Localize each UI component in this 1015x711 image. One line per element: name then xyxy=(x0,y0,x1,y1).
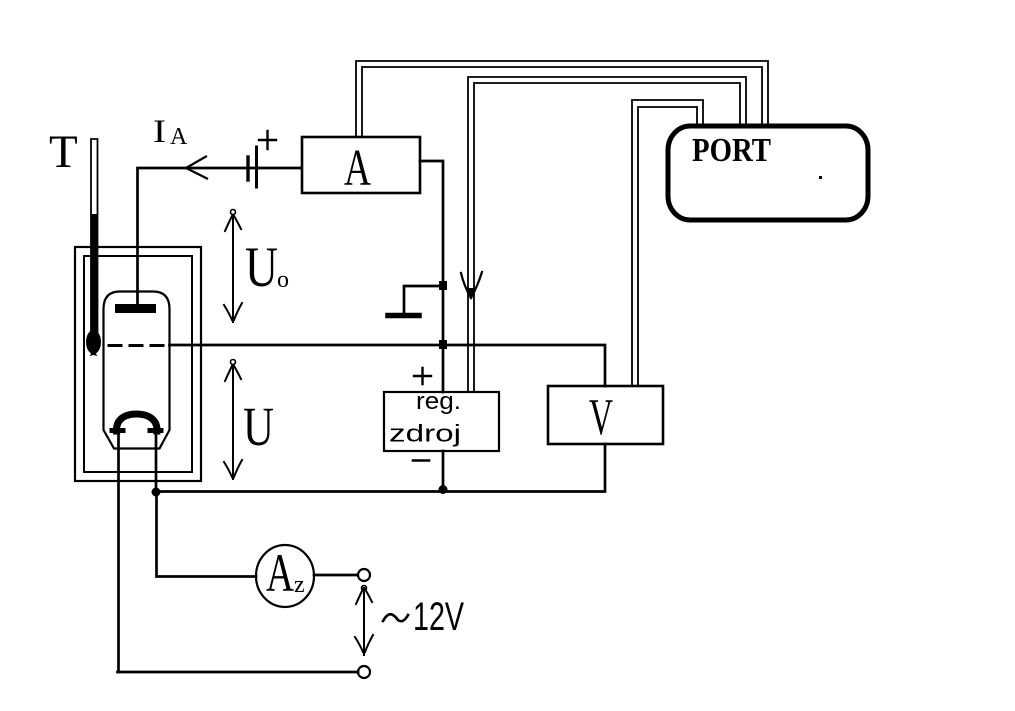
ammeter A2 circle xyxy=(256,545,314,607)
double wire A to PORT xyxy=(356,61,768,137)
top terminal circle xyxy=(358,569,370,581)
minus label reg zdroj xyxy=(413,459,429,462)
reg zdroj label xyxy=(389,388,461,448)
wire A2 to top terminal xyxy=(314,574,357,577)
bottom return wire xyxy=(118,671,359,674)
current arrow IA on wire xyxy=(186,157,207,179)
PORT box xyxy=(668,126,868,220)
arrow on PORT-reg wire xyxy=(461,272,482,298)
label Uo xyxy=(245,236,289,299)
filament right leg xyxy=(155,433,158,492)
voltmeter V box xyxy=(548,386,663,444)
svg-text:12V: 12V xyxy=(413,595,464,639)
junction dot at ground stub xyxy=(439,281,447,290)
scan speck in PORT xyxy=(819,176,822,179)
label IA xyxy=(153,114,188,150)
svg-text:T: T xyxy=(49,126,78,178)
svg-text:A: A xyxy=(170,124,188,150)
svg-text:PORT: PORT xyxy=(692,132,771,169)
ammeter A box xyxy=(302,137,420,193)
svg-text:A: A xyxy=(344,140,371,197)
A2 letters xyxy=(266,543,305,603)
tube envelope V1 xyxy=(104,292,170,449)
12V double arrow xyxy=(355,586,373,656)
svg-text:U: U xyxy=(243,396,274,457)
junction dot at bottom bus xyxy=(439,485,448,494)
plus label reg zdroj xyxy=(414,368,431,384)
label ~12V xyxy=(383,595,464,639)
Uo measurement arrow xyxy=(224,210,242,323)
ground symbol xyxy=(388,286,443,316)
filament left leg xyxy=(117,433,120,672)
main bus wire (cathode line) xyxy=(170,345,606,386)
dashed line in tube xyxy=(109,344,169,347)
svg-text:zdroj: zdroj xyxy=(389,421,461,448)
anode plate xyxy=(115,304,156,313)
oven enclosure outer xyxy=(75,247,201,481)
wire A box right to main vertical xyxy=(420,161,443,392)
U measurement arrow xyxy=(224,360,242,480)
svg-text:A: A xyxy=(266,543,294,603)
thermometer T xyxy=(86,139,101,356)
wire anode to battery (with corner) xyxy=(138,168,302,305)
bottom bus wire xyxy=(156,444,605,492)
battery plus label xyxy=(259,131,276,149)
junction dot bottom-left bus xyxy=(152,488,161,497)
svg-text:o: o xyxy=(277,267,289,293)
double wire PORT to V xyxy=(632,100,703,386)
svg-text:reg.: reg. xyxy=(416,388,461,415)
bottom terminal circle xyxy=(358,666,370,678)
reg zdroj box xyxy=(384,392,499,451)
battery B1 xyxy=(248,147,257,187)
wire reg zdroj bottom xyxy=(442,451,445,490)
oven enclosure inner xyxy=(84,256,192,472)
svg-text:U: U xyxy=(245,236,278,299)
wire bottom junction to A2 xyxy=(157,492,257,577)
svg-text:V: V xyxy=(589,389,613,446)
junction dot at bus xyxy=(439,340,447,349)
svg-text:I: I xyxy=(153,114,166,150)
double wire PORT to reg zdroj xyxy=(468,77,746,392)
cathode filament arc xyxy=(112,414,161,431)
svg-text:z: z xyxy=(294,572,305,598)
